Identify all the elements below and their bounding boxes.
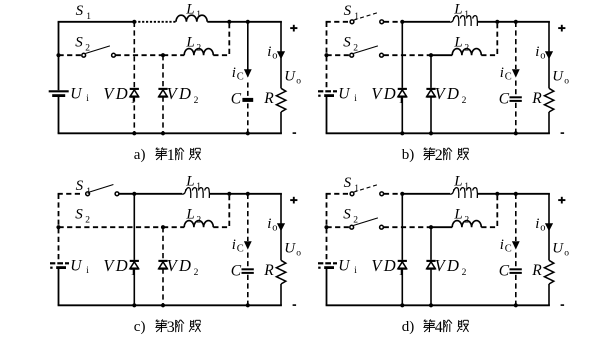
diode VD2 (panel b) bbox=[426, 89, 435, 97]
svg-text:o: o bbox=[296, 77, 301, 87]
wire: C branch mid dashed (panel d) bbox=[515, 253, 517, 268]
svg-text:C: C bbox=[237, 71, 244, 82]
label iC (panel b) bbox=[500, 65, 512, 82]
wire: S2 to VD2 node (panel d) bbox=[384, 226, 431, 228]
wire: VD1 branch upper (panel b) bbox=[401, 22, 403, 88]
wire: S2 to VD2 node (panel b) bbox=[384, 54, 431, 56]
label io (panel b) bbox=[535, 44, 545, 61]
wire: S2 to VD2 node (panel a) bbox=[116, 54, 163, 56]
svg-text:1: 1 bbox=[354, 184, 359, 194]
label minus (panel d) bbox=[561, 304, 565, 306]
wire: VD2 node to L2 dashed (panel c) bbox=[163, 226, 184, 228]
svg-text:S: S bbox=[75, 34, 83, 50]
label plus (panel c) bbox=[290, 197, 297, 204]
label Uo (panel d) bbox=[552, 240, 569, 258]
svg-text:b): b) bbox=[402, 147, 415, 163]
svg-text:2: 2 bbox=[85, 215, 90, 225]
wire: VD2 node to L2 (panel b) bbox=[431, 54, 452, 56]
resistor R (panel d) bbox=[544, 260, 553, 284]
wire: VD1 branch lower (panel c) bbox=[133, 269, 135, 306]
capacitor C (panel d) bbox=[510, 269, 522, 273]
wire: VD1 branch upper (panel a) bbox=[133, 22, 135, 88]
wire: VD2 branch lower (panel b) bbox=[430, 97, 432, 134]
inductor L2 (panel a) bbox=[184, 49, 213, 56]
wire: C branch upper dashed (panel d) bbox=[515, 194, 517, 241]
wire: right rail top (panel a) bbox=[280, 22, 282, 89]
svg-text:a): a) bbox=[134, 147, 146, 163]
resistor R (panel c) bbox=[276, 260, 285, 284]
diode VD2 (panel d) bbox=[426, 261, 435, 269]
svg-text:S: S bbox=[343, 206, 351, 222]
svg-text:VD: VD bbox=[435, 256, 462, 275]
battery Ui (panel b) bbox=[318, 91, 337, 96]
label minus (panel c) bbox=[293, 304, 297, 306]
label L1 (panel a) bbox=[185, 1, 201, 20]
label VD2 (panel b) bbox=[435, 84, 467, 106]
svg-text:i: i bbox=[500, 237, 504, 253]
junction dots (panel b) bbox=[324, 20, 518, 136]
svg-text:U: U bbox=[552, 68, 564, 84]
current arrow io (panel d) bbox=[545, 223, 553, 231]
label S1 (panel d) bbox=[344, 175, 360, 194]
wire: VD2 branch lower (panel c) bbox=[162, 269, 164, 306]
diode VD1 (panel b) bbox=[398, 89, 407, 97]
svg-text:VD: VD bbox=[103, 256, 130, 275]
wire: bottom rail (panel b) bbox=[326, 132, 550, 134]
switch S1 open (panel c) bbox=[86, 185, 119, 196]
capacitor C (panel b) bbox=[510, 97, 522, 101]
svg-text:C: C bbox=[505, 243, 512, 254]
switch S2 open (panel b) bbox=[350, 46, 384, 57]
svg-text:2: 2 bbox=[196, 44, 201, 54]
label C (panel b) bbox=[499, 91, 510, 108]
wire: right rail top (panel d) bbox=[548, 194, 550, 260]
label VD1 (panel d) bbox=[371, 256, 403, 278]
svg-text:i: i bbox=[232, 237, 236, 253]
wire: C branch bottom dashed (panel a) bbox=[247, 103, 249, 133]
wire: C branch live (panel a) bbox=[247, 22, 249, 77]
wire: L2 riser dashed (panel c) bbox=[213, 196, 229, 227]
svg-text:1: 1 bbox=[464, 10, 469, 20]
svg-text:U: U bbox=[338, 257, 351, 274]
wire: left rail top dashed (panel b) bbox=[326, 22, 328, 90]
svg-text:2: 2 bbox=[435, 147, 443, 164]
inductor L1 (panel c) bbox=[182, 188, 209, 198]
current arrow io (panel a) bbox=[277, 51, 285, 59]
wire: C branch upper dashed (panel b) bbox=[515, 22, 517, 69]
inductor L2 (panel d) bbox=[452, 221, 481, 228]
label L2 (panel b) bbox=[453, 35, 469, 54]
svg-text:1: 1 bbox=[354, 12, 359, 22]
wire: S1 to node (panel c) bbox=[119, 193, 134, 195]
label C (panel c) bbox=[231, 263, 242, 280]
label R (panel c) bbox=[263, 262, 274, 279]
svg-text:R: R bbox=[263, 90, 274, 107]
svg-text:C: C bbox=[499, 91, 510, 108]
label L2 (panel d) bbox=[453, 207, 469, 226]
svg-text:i: i bbox=[267, 216, 271, 232]
resistor R (panel a) bbox=[276, 88, 285, 112]
wire: left rail bottom (panel b) bbox=[326, 97, 328, 133]
wire: L2 riser dashed (panel a) bbox=[213, 24, 229, 55]
battery Ui (panel c) bbox=[50, 263, 69, 269]
diode VD1 (panel d) bbox=[398, 261, 407, 269]
wire: C branch mid dashed (panel a) bbox=[247, 83, 249, 97]
svg-text:2: 2 bbox=[464, 216, 469, 226]
svg-text:U: U bbox=[552, 240, 564, 256]
svg-text:S: S bbox=[344, 175, 352, 191]
svg-text:VD: VD bbox=[103, 84, 130, 103]
label minus (panel a) bbox=[293, 132, 297, 134]
wire: right rail bottom (panel b) bbox=[548, 112, 550, 133]
label Uo (panel b) bbox=[552, 68, 569, 86]
label Ui (panel a) bbox=[70, 85, 89, 104]
wire: node to L1 (panel b) bbox=[402, 21, 450, 23]
label io (panel c) bbox=[267, 216, 277, 233]
label iC (panel a) bbox=[232, 65, 244, 82]
wire: L2 riser dashed (panel b) bbox=[481, 24, 497, 55]
wire: C branch bottom dashed (panel c) bbox=[247, 275, 249, 306]
svg-text:L: L bbox=[185, 1, 194, 17]
svg-text:1: 1 bbox=[131, 268, 136, 278]
svg-text:L: L bbox=[453, 35, 462, 51]
current arrow iC (panel b) bbox=[512, 69, 520, 77]
svg-text:C: C bbox=[499, 263, 510, 280]
svg-text:L: L bbox=[453, 207, 462, 223]
switch S1 open (panel b) bbox=[350, 13, 384, 24]
wire: left rail to S2 (panel b) bbox=[327, 54, 350, 56]
label R (panel b) bbox=[531, 90, 542, 107]
current arrow io (panel b) bbox=[545, 51, 553, 59]
svg-text:i: i bbox=[535, 216, 539, 232]
wire: VD2 branch upper (panel a) bbox=[162, 55, 164, 88]
label S2 (panel a) bbox=[75, 34, 90, 53]
wire: VD1 branch lower (panel d) bbox=[401, 269, 403, 306]
capacitor C (panel a) bbox=[242, 98, 253, 102]
diode VD2 (panel c) bbox=[158, 261, 167, 269]
label io (panel a) bbox=[267, 44, 277, 61]
wire: VD2 branch lower (panel a) bbox=[162, 97, 164, 134]
label L2 (panel a) bbox=[185, 35, 201, 54]
label S2 (panel c) bbox=[75, 206, 90, 225]
wire: C branch upper dashed (panel c) bbox=[247, 194, 249, 241]
wire: VD2 branch lower (panel d) bbox=[430, 269, 432, 306]
svg-text:VD: VD bbox=[167, 256, 194, 275]
svg-text:o: o bbox=[564, 249, 569, 259]
svg-text:1: 1 bbox=[86, 12, 91, 22]
svg-text:L: L bbox=[453, 1, 462, 17]
svg-text:VD: VD bbox=[167, 84, 194, 103]
wire: L1 to output node (panel a) bbox=[207, 21, 282, 23]
label S1 (panel c) bbox=[76, 178, 92, 197]
label Ui (panel b) bbox=[338, 85, 357, 104]
svg-text:2: 2 bbox=[353, 43, 358, 53]
wire: left rail bottom (panel a) bbox=[58, 97, 60, 133]
inductor L1 (panel a) bbox=[176, 15, 207, 22]
label Ui (panel d) bbox=[338, 257, 357, 276]
capacitor C (panel c) bbox=[242, 269, 254, 273]
svg-text:S: S bbox=[76, 3, 84, 19]
svg-text:U: U bbox=[70, 257, 83, 274]
label plus (panel d) bbox=[558, 197, 565, 204]
wire: L2 riser dashed (panel d) bbox=[481, 196, 497, 227]
wire: bottom rail (panel d) bbox=[326, 304, 550, 306]
svg-text:o: o bbox=[272, 51, 277, 62]
svg-text:1: 1 bbox=[399, 96, 404, 106]
wire: C branch mid dashed (panel c) bbox=[247, 253, 249, 268]
svg-text:R: R bbox=[263, 262, 274, 279]
wire: left rail to S2 (panel a) bbox=[59, 54, 82, 56]
label iC (panel d) bbox=[500, 237, 512, 254]
svg-text:c): c) bbox=[134, 319, 146, 335]
svg-text:L: L bbox=[185, 35, 194, 51]
wire: VD2 branch upper (panel d) bbox=[430, 227, 432, 260]
label L1 (panel d) bbox=[453, 173, 469, 192]
battery Ui (panel a) bbox=[49, 91, 69, 95]
label minus (panel b) bbox=[561, 132, 565, 134]
svg-text:2: 2 bbox=[85, 43, 90, 53]
svg-text:S: S bbox=[344, 3, 352, 19]
wire: S1 to node (panel b) bbox=[384, 21, 402, 23]
wire: VD2 branch upper (panel b) bbox=[430, 55, 432, 88]
svg-text:S: S bbox=[75, 206, 83, 222]
wire: left rail to S2 (panel d) bbox=[327, 226, 350, 228]
label Ui (panel c) bbox=[70, 257, 89, 276]
svg-text:2: 2 bbox=[194, 96, 199, 106]
svg-text:4: 4 bbox=[435, 319, 443, 336]
label C (panel a) bbox=[231, 91, 242, 108]
svg-text:2: 2 bbox=[194, 268, 199, 278]
label R (panel a) bbox=[263, 90, 274, 107]
svg-text:i: i bbox=[500, 65, 504, 81]
junction dots (panel a) bbox=[56, 20, 250, 136]
wire: VD2 branch upper (panel c) bbox=[162, 227, 164, 260]
current arrow io (panel c) bbox=[277, 223, 285, 231]
wire: right rail top (panel b) bbox=[548, 22, 550, 89]
svg-text:i: i bbox=[86, 94, 89, 104]
wire: node to L1 (panel c) bbox=[134, 193, 182, 195]
svg-text:o: o bbox=[540, 223, 545, 234]
svg-text:i: i bbox=[86, 266, 89, 276]
wire: C branch bottom dashed (panel d) bbox=[515, 275, 517, 306]
svg-text:3: 3 bbox=[167, 319, 175, 336]
label S2 (panel b) bbox=[343, 34, 358, 53]
svg-text:S: S bbox=[343, 34, 351, 50]
caption b) stage 2 (panel b) bbox=[402, 147, 469, 164]
battery Ui (panel d) bbox=[318, 263, 337, 269]
svg-text:i: i bbox=[232, 65, 236, 81]
svg-text:1: 1 bbox=[464, 182, 469, 192]
svg-text:2: 2 bbox=[462, 96, 467, 106]
svg-text:L: L bbox=[185, 207, 194, 223]
wire: L1 to output node (panel c) bbox=[210, 193, 282, 195]
svg-text:U: U bbox=[338, 85, 351, 102]
wire: bottom rail (panel a) bbox=[58, 132, 282, 134]
junction dots (panel c) bbox=[56, 192, 250, 308]
wire: C branch mid dashed (panel b) bbox=[515, 81, 517, 96]
wire: right rail top (panel c) bbox=[280, 194, 282, 260]
wire: top rail S1 section solid (panel a) bbox=[58, 21, 135, 23]
inductor L2 (panel b) bbox=[452, 49, 481, 56]
label Uo (panel a) bbox=[284, 68, 301, 86]
wire: top rail to S1 (panel c) bbox=[58, 193, 83, 195]
svg-text:VD: VD bbox=[435, 84, 462, 103]
wire: C branch bottom dashed (panel b) bbox=[515, 103, 517, 134]
inductor L1 (panel b) bbox=[450, 16, 477, 26]
label S1 (panel a) bbox=[76, 3, 92, 22]
wire: L1 to output node (panel d) bbox=[478, 193, 550, 195]
current arrow iC (panel c) bbox=[244, 241, 252, 249]
label R (panel d) bbox=[531, 262, 542, 279]
wire: left rail top dashed (panel d) bbox=[326, 194, 328, 262]
svg-text:2: 2 bbox=[353, 215, 358, 225]
label VD2 (panel a) bbox=[167, 84, 199, 106]
svg-text:d): d) bbox=[402, 319, 415, 335]
svg-text:S: S bbox=[76, 178, 84, 194]
caption a) stage 1 (panel a) bbox=[134, 147, 201, 164]
wire: L1 to output node (panel b) bbox=[478, 21, 550, 23]
label VD1 (panel c) bbox=[103, 256, 135, 278]
switch S2 open (panel a) bbox=[82, 46, 116, 57]
wire: VD1 branch upper (panel c) bbox=[133, 194, 135, 260]
switch S2 open (panel d) bbox=[350, 218, 384, 229]
svg-text:C: C bbox=[237, 243, 244, 254]
svg-text:i: i bbox=[535, 44, 539, 60]
wire: right rail bottom (panel c) bbox=[280, 284, 282, 305]
label VD1 (panel b) bbox=[371, 84, 403, 106]
svg-text:o: o bbox=[272, 223, 277, 234]
caption c) stage 3 (panel c) bbox=[134, 319, 201, 336]
inductor L2 (panel c) bbox=[184, 221, 213, 228]
svg-text:C: C bbox=[231, 263, 242, 280]
wire: node to L1 dotted (panel a) bbox=[134, 21, 176, 23]
svg-text:1: 1 bbox=[167, 147, 175, 164]
resistor R (panel b) bbox=[544, 88, 553, 112]
svg-text:U: U bbox=[284, 68, 296, 84]
label plus (panel b) bbox=[558, 25, 565, 32]
wire: top rail to S1 (panel b) bbox=[326, 21, 351, 23]
svg-text:L: L bbox=[453, 173, 462, 189]
svg-text:1: 1 bbox=[86, 187, 91, 197]
label iC (panel c) bbox=[232, 237, 244, 254]
svg-text:1: 1 bbox=[196, 10, 201, 20]
wire: bottom rail (panel c) bbox=[58, 304, 282, 306]
label S2 (panel d) bbox=[343, 206, 358, 225]
label L1 (panel b) bbox=[453, 1, 469, 20]
label S1 (panel b) bbox=[344, 3, 360, 22]
wire: left rail bottom (panel c) bbox=[58, 269, 60, 305]
diode VD2 (panel a) bbox=[158, 89, 167, 97]
label VD2 (panel d) bbox=[435, 256, 467, 278]
switch S1 open (panel d) bbox=[350, 185, 384, 196]
wire: S1 to node (panel d) bbox=[384, 193, 402, 195]
svg-text:1: 1 bbox=[196, 182, 201, 192]
svg-text:i: i bbox=[354, 266, 357, 276]
current arrow iC (panel d) bbox=[512, 241, 520, 249]
wire: right rail bottom (panel d) bbox=[548, 284, 550, 305]
label C (panel d) bbox=[499, 263, 510, 280]
wire: top rail to S1 (panel d) bbox=[326, 193, 351, 195]
svg-text:R: R bbox=[531, 262, 542, 279]
svg-text:1: 1 bbox=[399, 268, 404, 278]
diode VD1 (panel a) bbox=[130, 89, 139, 97]
label plus (panel a) bbox=[290, 25, 297, 32]
svg-text:U: U bbox=[70, 85, 83, 102]
caption d) stage 4 (panel d) bbox=[402, 319, 469, 336]
current arrow iC (panel a) bbox=[244, 69, 252, 77]
wire: VD1 branch lower (panel a) bbox=[133, 97, 135, 134]
svg-text:o: o bbox=[296, 249, 301, 259]
svg-text:VD: VD bbox=[371, 84, 398, 103]
wire: VD2 node to L2 dashed (panel a) bbox=[163, 54, 184, 56]
svg-text:C: C bbox=[505, 71, 512, 82]
svg-text:i: i bbox=[354, 94, 357, 104]
svg-text:R: R bbox=[531, 90, 542, 107]
wire: right rail bottom (panel a) bbox=[280, 112, 282, 133]
wire: left rail top dashed (panel c) bbox=[58, 194, 60, 262]
wire: VD1 branch lower (panel b) bbox=[401, 97, 403, 134]
inductor L1 (panel d) bbox=[450, 188, 477, 198]
wire: VD1 branch upper (panel d) bbox=[401, 194, 403, 260]
junction dots (panel d) bbox=[324, 192, 518, 308]
label L1 (panel c) bbox=[185, 173, 201, 192]
wire: left rail top (panel a) bbox=[58, 22, 60, 90]
svg-text:VD: VD bbox=[371, 256, 398, 275]
label Uo (panel c) bbox=[284, 240, 301, 258]
svg-text:L: L bbox=[185, 173, 194, 189]
svg-text:2: 2 bbox=[196, 216, 201, 226]
svg-text:1: 1 bbox=[131, 96, 136, 106]
svg-text:C: C bbox=[231, 91, 242, 108]
label L2 (panel c) bbox=[185, 207, 201, 226]
svg-text:U: U bbox=[284, 240, 296, 256]
wire: S2 rail dashed closed (panel c) bbox=[59, 226, 164, 228]
svg-text:2: 2 bbox=[464, 44, 469, 54]
svg-text:o: o bbox=[564, 77, 569, 87]
wire: left rail bottom (panel d) bbox=[326, 269, 328, 305]
svg-text:o: o bbox=[540, 51, 545, 62]
wire: node to L1 (panel d) bbox=[402, 193, 450, 195]
label VD2 (panel c) bbox=[167, 256, 199, 278]
svg-text:i: i bbox=[267, 44, 271, 60]
wire: VD2 node to L2 (panel d) bbox=[431, 226, 452, 228]
label VD1 (panel a) bbox=[103, 84, 135, 106]
svg-text:2: 2 bbox=[462, 268, 467, 278]
label io (panel d) bbox=[535, 216, 545, 233]
diode VD1 (panel c) bbox=[130, 261, 139, 269]
